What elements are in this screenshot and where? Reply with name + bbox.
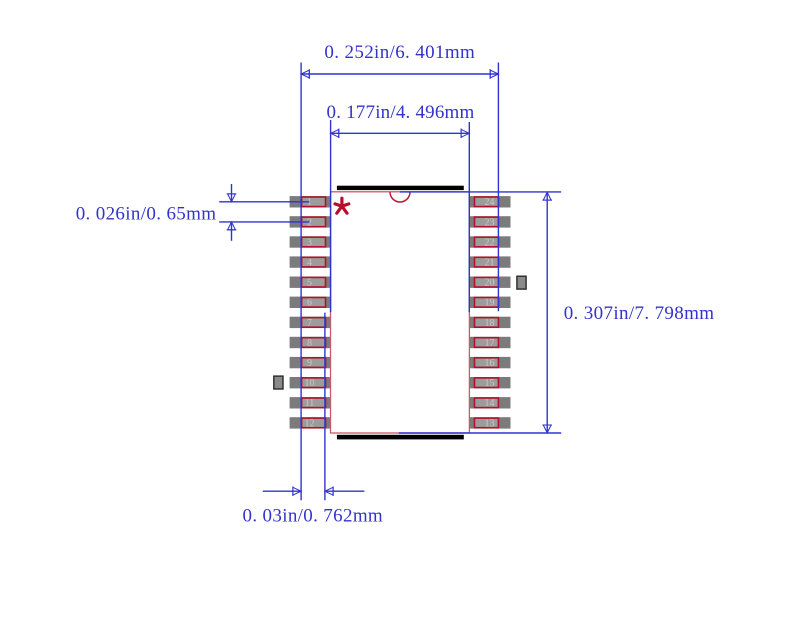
svg-text:14: 14 <box>485 398 495 409</box>
svg-text:16: 16 <box>485 358 495 369</box>
svg-text:8: 8 <box>307 338 312 349</box>
svg-text:0. 026in/0. 65mm: 0. 026in/0. 65mm <box>76 203 217 224</box>
svg-text:3: 3 <box>307 237 312 248</box>
svg-text:13: 13 <box>485 418 495 429</box>
svg-text:24: 24 <box>485 197 495 208</box>
svg-text:1: 1 <box>307 197 312 208</box>
svg-text:2: 2 <box>307 217 312 228</box>
svg-text:22: 22 <box>485 237 495 248</box>
svg-text:0. 177in/4. 496mm: 0. 177in/4. 496mm <box>327 102 475 123</box>
svg-text:12: 12 <box>305 418 315 429</box>
svg-text:0. 03in/0. 762mm: 0. 03in/0. 762mm <box>243 506 384 527</box>
svg-text:17: 17 <box>485 338 495 349</box>
svg-text:15: 15 <box>485 378 495 389</box>
svg-text:10: 10 <box>305 378 315 389</box>
svg-text:21: 21 <box>485 258 495 269</box>
svg-text:5: 5 <box>307 278 312 289</box>
svg-text:9: 9 <box>307 358 312 369</box>
svg-text:19: 19 <box>485 298 495 309</box>
svg-text:23: 23 <box>485 217 495 228</box>
svg-text:4: 4 <box>307 258 312 269</box>
svg-text:0. 252in/6. 401mm: 0. 252in/6. 401mm <box>324 42 475 63</box>
svg-text:0. 307in/7. 798mm: 0. 307in/7. 798mm <box>564 303 715 324</box>
svg-text:11: 11 <box>305 398 315 409</box>
svg-text:20: 20 <box>485 278 495 289</box>
svg-text:6: 6 <box>307 298 312 309</box>
svg-text:18: 18 <box>485 318 495 329</box>
svg-text:7: 7 <box>307 318 312 329</box>
